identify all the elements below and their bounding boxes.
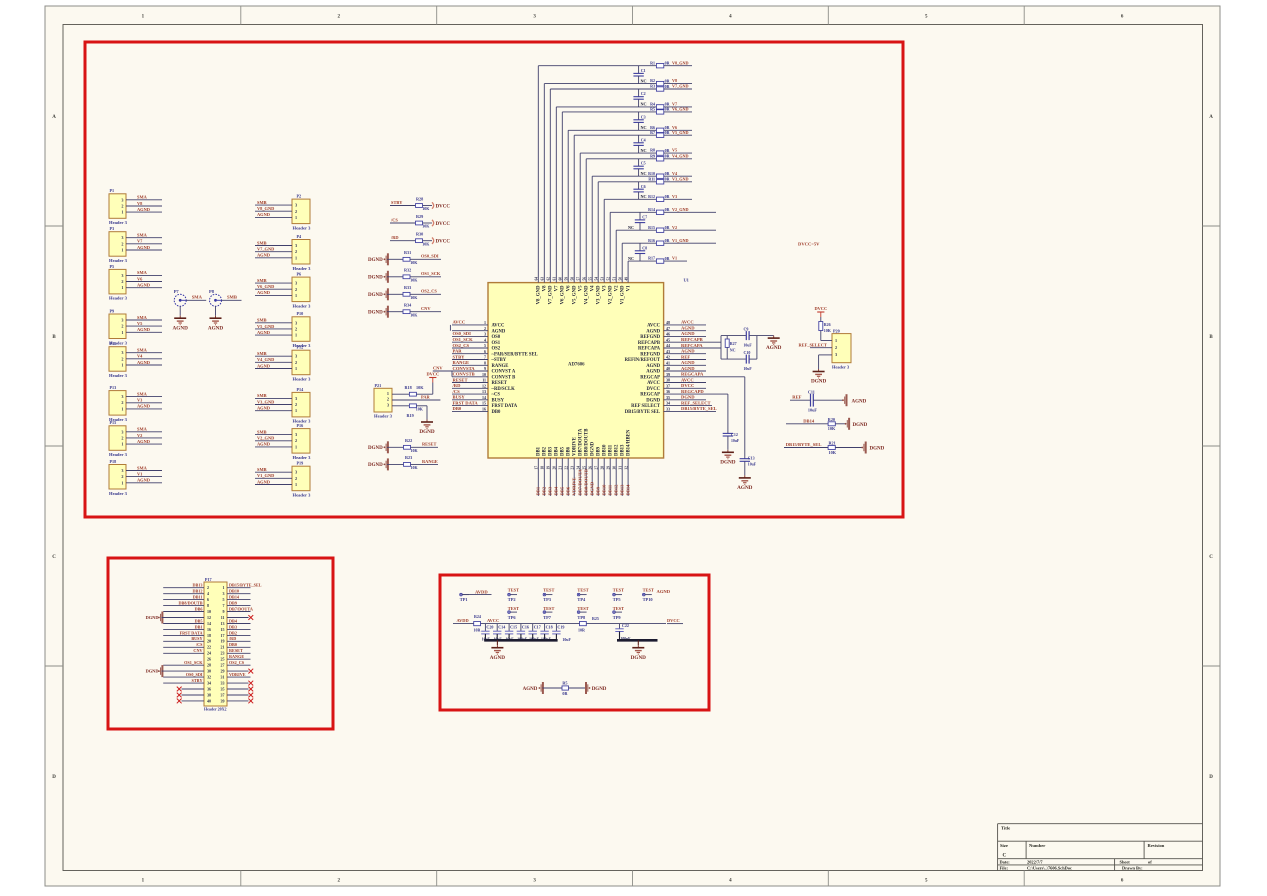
svg-text:10: 10 — [207, 609, 211, 614]
svg-text:30: 30 — [613, 466, 617, 470]
svg-text:of: of — [1148, 860, 1152, 865]
svg-text:V1: V1 — [627, 285, 632, 291]
svg-text:34: 34 — [207, 681, 211, 686]
svg-text:V7_GND: V7_GND — [549, 285, 554, 304]
U1 pin 13 ~CS — [452, 389, 501, 398]
svg-text:DB12: DB12 — [614, 484, 619, 496]
svg-text:TP7: TP7 — [543, 615, 552, 620]
svg-text:P12: P12 — [297, 345, 304, 350]
svg-text:AGND: AGND — [657, 589, 671, 594]
capacitor C5 — [633, 159, 645, 176]
svg-text:C20: C20 — [486, 625, 493, 630]
svg-text:A: A — [1209, 115, 1213, 120]
resistor R4 0R (V7) — [650, 102, 692, 110]
svg-text:10K: 10K — [416, 385, 424, 390]
U1 pin 35 DGND — [646, 395, 706, 404]
wire junction pins 1-2 AVCC/AGND — [449, 325, 451, 331]
svg-text:10K: 10K — [411, 465, 419, 470]
svg-text:DB13: DB13 — [192, 583, 202, 588]
svg-text:13: 13 — [482, 389, 486, 394]
U1 pin 9 CONVST A — [433, 366, 516, 375]
svg-text:7: 7 — [484, 355, 486, 360]
P17 pin 12 wire to DGND port — [146, 612, 204, 624]
P17 pin 36 wire no-connect X — [177, 687, 204, 692]
svg-text:TP9: TP9 — [613, 615, 622, 620]
svg-text:DB4: DB4 — [554, 486, 559, 495]
ground AGND at P8 — [209, 289, 242, 316]
svg-text:33: 33 — [221, 681, 225, 686]
svg-text:STBY: STBY — [192, 678, 203, 683]
U1 pin 1 AVCC — [452, 320, 505, 329]
svg-text:DB5: DB5 — [560, 486, 565, 495]
U1 pin 14 BUSY — [452, 395, 505, 404]
svg-text:V3: V3 — [137, 398, 143, 403]
test point TP6 — [508, 606, 519, 620]
P17 pin 39 wire no-connect X — [227, 699, 253, 704]
U1 pin 56 V4_GND with wire to resistor R9 — [583, 159, 657, 305]
svg-text:26: 26 — [589, 466, 593, 470]
svg-text:DB3: DB3 — [549, 446, 554, 456]
wire PAR from P21.2 — [392, 395, 440, 400]
U1 pin 52 V2_GND with wire to resistor R14 — [607, 212, 657, 304]
svg-text:3: 3 — [295, 281, 297, 286]
svg-text:R32: R32 — [404, 268, 411, 273]
svg-text:CONVSTB: CONVSTB — [453, 372, 475, 377]
P17 pin 9 wire DB7/DOUTA — [227, 606, 253, 611]
svg-text:AVDD: AVDD — [457, 618, 469, 623]
U1 pin 55 V4 with wire to resistor R10 — [589, 176, 657, 291]
svg-text:TEST: TEST — [577, 587, 588, 592]
svg-text:Header 3: Header 3 — [293, 455, 312, 460]
svg-text:2: 2 — [121, 241, 123, 246]
svg-text:V1_GND: V1_GND — [257, 473, 274, 478]
svg-text:60: 60 — [559, 277, 563, 281]
svg-text:Header 3: Header 3 — [293, 303, 312, 308]
svg-text:3: 3 — [295, 432, 297, 437]
svg-text:RANGE: RANGE — [422, 459, 438, 464]
svg-text:1: 1 — [835, 338, 837, 343]
svg-text:AGND: AGND — [681, 331, 695, 336]
svg-text:27: 27 — [595, 466, 599, 470]
svg-text:SMA: SMA — [137, 315, 148, 320]
svg-text:DGND: DGND — [146, 615, 159, 620]
svg-text:C12: C12 — [731, 432, 738, 437]
resistor R29 10K (/CS pull-up to DVCC) — [390, 214, 450, 229]
svg-text:DGND: DGND — [146, 669, 159, 674]
capacitor C3 — [633, 112, 645, 130]
svg-text:DB13: DB13 — [620, 484, 625, 496]
svg-text:34: 34 — [666, 401, 670, 406]
svg-text:CNV: CNV — [193, 648, 202, 653]
svg-text:29: 29 — [607, 466, 611, 470]
header P18 (SMA V1) — [109, 459, 162, 496]
svg-text:P17: P17 — [205, 577, 212, 582]
svg-text:46: 46 — [666, 332, 670, 337]
U1 pin 48 AVCC — [647, 320, 706, 329]
svg-text:P18: P18 — [110, 459, 117, 464]
svg-text:3: 3 — [223, 591, 225, 596]
U1 pin 62 V7_GND with wire to resistor R3 — [547, 89, 657, 304]
svg-text:35: 35 — [221, 686, 225, 691]
svg-text:R10: R10 — [648, 171, 655, 176]
P17 pin 2 wire DB13 — [163, 583, 204, 588]
svg-text:AGND: AGND — [646, 370, 660, 375]
svg-text:16: 16 — [207, 627, 211, 632]
U1 pin 61 V7 with wire to resistor R4 — [553, 107, 657, 291]
U1 pin 26 DGND — [589, 441, 596, 496]
header P9 (SMA V5) — [109, 308, 162, 345]
svg-text:DB5: DB5 — [561, 446, 566, 456]
wire junction pins 9-10 CONVST A/B — [451, 371, 453, 377]
svg-text:DB8/DOUTB: DB8/DOUTB — [585, 428, 590, 456]
svg-text:58: 58 — [571, 277, 575, 281]
red highlight box P17 header — [108, 558, 333, 729]
svg-text:DVCC: DVCC — [436, 222, 451, 227]
svg-text:DB0: DB0 — [453, 406, 462, 411]
capacitor C19 10uF — [552, 624, 571, 642]
svg-text:V5_GND: V5_GND — [257, 324, 274, 329]
svg-text:1: 1 — [121, 330, 123, 335]
svg-text:15: 15 — [482, 401, 486, 406]
svg-text:25: 25 — [583, 466, 587, 470]
svg-text:V5: V5 — [579, 285, 584, 291]
svg-text:V2_GND: V2_GND — [609, 285, 614, 304]
svg-text:SMB: SMB — [257, 200, 267, 205]
svg-text:32: 32 — [624, 466, 628, 470]
svg-text:TEST: TEST — [508, 606, 519, 611]
U1 pin 50 V1_GND with wire to resistor R16 — [619, 243, 657, 304]
svg-text:R21: R21 — [829, 441, 836, 446]
svg-text:V3_GND: V3_GND — [597, 285, 602, 304]
U1 pin 38 AVCC — [647, 377, 706, 386]
svg-text:DGND: DGND — [368, 446, 383, 451]
svg-text:V4: V4 — [672, 171, 678, 176]
U1 pin 46 REFGND — [640, 331, 706, 340]
svg-text:R8: R8 — [650, 148, 655, 153]
U1 pin 18 DB2 — [541, 446, 548, 496]
svg-text:AGND: AGND — [490, 655, 506, 661]
svg-text:V8: V8 — [137, 201, 143, 206]
svg-text:DGND: DGND — [720, 459, 736, 465]
svg-text:DVCC: DVCC — [681, 383, 694, 388]
svg-text:DB15/BYTE SEL: DB15/BYTE SEL — [625, 410, 660, 415]
svg-text:24: 24 — [577, 466, 581, 470]
svg-text:FRST DATA: FRST DATA — [453, 400, 479, 405]
svg-text:VDRIVE: VDRIVE — [229, 672, 246, 677]
svg-text:1: 1 — [121, 248, 123, 253]
U1 pin 20 DB4 — [553, 446, 560, 496]
svg-text:AGND: AGND — [523, 687, 538, 692]
svg-text:V8_GND: V8_GND — [672, 60, 689, 65]
svg-text:AGND: AGND — [137, 327, 150, 332]
P17 pin 23 wire RESET — [227, 648, 251, 653]
svg-text:C22: C22 — [622, 623, 629, 628]
svg-text:R20: R20 — [828, 417, 835, 422]
resistor R6 0R (V6) — [650, 125, 692, 133]
svg-text:C:\Users\..\7606.SchDoc: C:\Users\..\7606.SchDoc — [1027, 866, 1072, 871]
svg-text:2: 2 — [121, 324, 123, 329]
svg-text:14: 14 — [207, 621, 211, 626]
svg-text:V2_GND: V2_GND — [257, 436, 274, 441]
svg-text:C17: C17 — [534, 625, 541, 630]
svg-text:NC: NC — [640, 148, 646, 153]
svg-text:53: 53 — [601, 277, 605, 281]
U1 pin 24 DB7/DOUTA — [577, 428, 584, 496]
P17 pin 6 wire DB11 — [163, 595, 204, 600]
U1 pin 42 REFIN/REFOUT — [625, 354, 706, 363]
svg-text:REFIN/REFOUT: REFIN/REFOUT — [625, 358, 661, 363]
svg-text:C5: C5 — [641, 161, 646, 166]
svg-text:2: 2 — [295, 249, 297, 254]
resistor R5 0R (AGND to DGND link) — [523, 681, 607, 697]
P17 pin 16 wire DB1 — [163, 624, 204, 629]
svg-text:V7: V7 — [137, 239, 143, 244]
svg-text:OS1: OS1 — [492, 341, 501, 346]
svg-text:21: 21 — [221, 645, 225, 650]
svg-text:37: 37 — [666, 383, 670, 388]
U1 pin 64 V8_GND with wire to resistor R1 — [535, 66, 657, 305]
svg-text:R22: R22 — [405, 438, 412, 443]
svg-text:SMB: SMB — [257, 393, 267, 398]
header P17 (Header 20X2) body — [204, 577, 227, 712]
red highlight box test points — [440, 575, 709, 710]
U1 pin 5 OS2 — [452, 343, 501, 352]
resistor R12 0R (V3) — [648, 194, 692, 202]
svg-text:PAR: PAR — [421, 395, 431, 400]
svg-text:R5: R5 — [650, 107, 655, 112]
op-amp/IC U1 AD7606 body — [488, 277, 689, 458]
svg-text:U1: U1 — [684, 277, 689, 282]
svg-text:AGND: AGND — [681, 349, 695, 354]
svg-text:C: C — [1209, 555, 1213, 560]
svg-text:37: 37 — [221, 692, 225, 697]
svg-text:V2: V2 — [672, 225, 677, 230]
resistor R7 0R (V5_GND) — [650, 130, 692, 138]
U1 pin 7 ~STBY — [452, 354, 507, 363]
P17 pin 29 wire no-connect X — [227, 669, 253, 674]
svg-text:DB2: DB2 — [543, 446, 548, 456]
svg-text:/CS: /CS — [452, 389, 461, 394]
svg-text:VDRIVE: VDRIVE — [573, 437, 578, 456]
svg-text:NC: NC — [640, 102, 646, 107]
svg-text:DB1: DB1 — [537, 446, 542, 456]
svg-text:1: 1 — [295, 293, 297, 298]
P17 pin 27 wire OS2_CS — [227, 660, 251, 665]
svg-text:AGND: AGND — [257, 330, 270, 335]
svg-text:3: 3 — [121, 197, 123, 202]
svg-text:0R: 0R — [665, 177, 670, 182]
svg-text:C3: C3 — [641, 114, 646, 119]
capacitor C9 10uF — [744, 327, 753, 348]
svg-text:BUSY: BUSY — [191, 636, 202, 641]
svg-text:AGND: AGND — [208, 325, 224, 331]
svg-text:DGND: DGND — [631, 655, 647, 661]
svg-text:PAR: PAR — [453, 349, 463, 354]
P17 pin 17 wire DB2 — [227, 630, 251, 635]
svg-text:C4: C4 — [641, 137, 646, 142]
U1 pin 51 V2 with wire to resistor R15 — [613, 230, 657, 291]
svg-text:49: 49 — [624, 277, 628, 281]
U1 pin 21 DB5 — [559, 446, 566, 496]
svg-text:2: 2 — [121, 435, 123, 440]
svg-text:22: 22 — [565, 466, 569, 470]
svg-text:39: 39 — [221, 698, 225, 703]
P17 pin 14 wire DB5 — [163, 618, 204, 623]
svg-text:2: 2 — [387, 397, 389, 402]
svg-text:DB15/BYTE_SEL: DB15/BYTE_SEL — [681, 406, 717, 411]
U1 pin 6 ~PAR/SER/BYTE SEL — [452, 349, 538, 358]
svg-text:R9: R9 — [650, 153, 655, 158]
svg-text:V2_GND: V2_GND — [672, 207, 689, 212]
svg-text:TP6: TP6 — [508, 615, 517, 620]
resistor R27 NC (REFCAPB-REFCAPA) — [725, 336, 736, 360]
svg-text:Header 3: Header 3 — [293, 266, 312, 271]
svg-text:10K: 10K — [422, 224, 430, 229]
svg-text:Size: Size — [1000, 843, 1008, 848]
svg-text:SMB: SMB — [257, 429, 267, 434]
svg-text:5: 5 — [484, 343, 486, 348]
svg-text:DB0: DB0 — [492, 410, 502, 415]
resistor R10 0R (V4) — [648, 171, 692, 179]
svg-text:AGND: AGND — [137, 439, 150, 444]
svg-text:SMA: SMA — [137, 348, 148, 353]
svg-text:V6_GND: V6_GND — [257, 284, 274, 289]
svg-text:DGND: DGND — [368, 258, 383, 263]
svg-text:DB11: DB11 — [608, 484, 613, 495]
resistor R25 10R — [578, 616, 599, 633]
no-connect NC label — [628, 256, 634, 261]
svg-text:2: 2 — [121, 400, 123, 405]
svg-text:R25: R25 — [592, 616, 599, 621]
svg-text:C6: C6 — [641, 184, 646, 189]
svg-text:Header 3: Header 3 — [293, 493, 312, 498]
svg-text:2: 2 — [121, 474, 123, 479]
U1 pin 53 V3 with wire to resistor R12 — [601, 199, 657, 291]
svg-text:1: 1 — [295, 444, 297, 449]
svg-text:AGND: AGND — [173, 325, 189, 331]
resistor R30 10K (/RD pull-up to DVCC) — [390, 232, 450, 247]
capacitor C17 100nF — [529, 624, 541, 642]
svg-text:19: 19 — [221, 639, 225, 644]
svg-text:SMB: SMB — [257, 467, 267, 472]
P17 pin 40 wire no-connect X — [177, 699, 204, 704]
svg-text:4: 4 — [207, 591, 209, 596]
U1 pin 49 V1 with wire to resistor R17 — [624, 261, 656, 291]
svg-text:AGND: AGND — [681, 366, 695, 371]
svg-text:SMB: SMB — [227, 295, 237, 300]
svg-text:Header 3: Header 3 — [109, 491, 128, 496]
svg-text:DB14: DB14 — [626, 484, 631, 496]
P17 pin 13 wire DB4 — [227, 618, 251, 623]
svg-text:DB4: DB4 — [555, 446, 560, 456]
svg-text:REFCAPB: REFCAPB — [638, 341, 660, 346]
svg-text:36: 36 — [666, 389, 670, 394]
svg-text:TEST: TEST — [543, 587, 554, 592]
svg-text:Header 3: Header 3 — [832, 364, 850, 369]
svg-text:V5_GND: V5_GND — [573, 285, 578, 304]
U1 pin 17 DB1 — [535, 446, 542, 496]
no-connect NC label — [640, 78, 646, 83]
svg-text:DGND: DGND — [590, 481, 595, 495]
svg-text:Header 3: Header 3 — [293, 377, 312, 382]
svg-text:DVCC: DVCC — [814, 306, 827, 311]
svg-text:V4_GND: V4_GND — [585, 285, 590, 304]
svg-text:1: 1 — [121, 406, 123, 411]
svg-text:AGND: AGND — [681, 360, 695, 365]
svg-text:C18: C18 — [546, 625, 553, 630]
svg-text:V1_GND: V1_GND — [672, 238, 689, 243]
svg-text:SMA: SMA — [137, 465, 148, 470]
capacitor C11 10uF (REF to AGND) — [790, 389, 867, 412]
svg-text:5: 5 — [223, 597, 225, 602]
svg-text:DB8/DOUTB: DB8/DOUTB — [179, 601, 203, 606]
svg-text:13: 13 — [221, 621, 225, 626]
capacitor C12 10uF (REGCAPD to DGND) — [664, 394, 740, 450]
U1 pin 54 V3_GND with wire to resistor R11 — [595, 182, 657, 305]
svg-text:17: 17 — [535, 466, 539, 470]
resistor R17 0R (V1) — [648, 256, 687, 264]
svg-text:P15: P15 — [110, 420, 117, 425]
svg-text:2: 2 — [295, 476, 297, 481]
resistor R1 0R (V8_GND) — [650, 60, 692, 68]
U1 pin 2 AGND — [452, 326, 506, 335]
power DVCC=5V note — [798, 242, 820, 247]
svg-text:Revision: Revision — [1148, 843, 1165, 848]
svg-text:R30: R30 — [416, 232, 423, 237]
P17 pin 35 wire no-connect X — [227, 687, 253, 692]
svg-text:FRST DATA: FRST DATA — [492, 404, 518, 409]
P17 pin 38 wire no-connect X — [177, 693, 204, 698]
svg-text:OS2: OS2 — [492, 347, 501, 352]
svg-text:DB12: DB12 — [615, 444, 620, 456]
svg-text:Header 3: Header 3 — [109, 258, 128, 263]
svg-text:48: 48 — [666, 320, 670, 325]
P17 pin 5 wire DB14 — [227, 595, 251, 600]
svg-text:P9: P9 — [110, 308, 115, 313]
svg-text:AGND: AGND — [646, 329, 660, 334]
svg-text:2: 2 — [207, 585, 209, 590]
svg-text:Header 20X2: Header 20X2 — [204, 707, 226, 712]
header P21 (Header 3) — [374, 383, 393, 418]
P17 pin 30 wire to DGND port — [146, 665, 204, 677]
svg-text:3: 3 — [295, 354, 297, 359]
svg-text:30: 30 — [207, 669, 211, 674]
svg-text:V8_GND: V8_GND — [537, 285, 542, 304]
svg-text:32: 32 — [207, 675, 211, 680]
U1 pin 30 DB12 — [613, 444, 620, 496]
svg-text:C10: C10 — [744, 350, 751, 355]
svg-text:P6: P6 — [297, 272, 302, 277]
resistor R23 10K (RANGE pull-down to DGND) — [368, 455, 438, 470]
svg-text:0R: 0R — [665, 154, 670, 159]
svg-text:Sheet: Sheet — [1120, 860, 1131, 865]
U1 pin 63 V8 with wire to resistor R2 — [541, 84, 657, 292]
svg-text:C14: C14 — [498, 625, 505, 630]
svg-text:P5: P5 — [110, 264, 115, 269]
svg-text:File:: File: — [1000, 866, 1009, 871]
svg-text:TEST: TEST — [613, 587, 624, 592]
svg-text:BUSY: BUSY — [492, 398, 505, 403]
svg-text:1: 1 — [295, 366, 297, 371]
svg-text:DB6: DB6 — [567, 446, 572, 456]
svg-text:29: 29 — [221, 669, 225, 674]
svg-text:C: C — [1003, 854, 1007, 859]
svg-text:AVCC: AVCC — [681, 320, 694, 325]
U1 pin 32 DB14/HBEN — [624, 429, 631, 496]
U1 pin 27 DB9 — [595, 446, 602, 496]
svg-text:3: 3 — [121, 235, 123, 240]
resistor R34 10K (CNV pull-down to DGND) — [368, 303, 441, 318]
